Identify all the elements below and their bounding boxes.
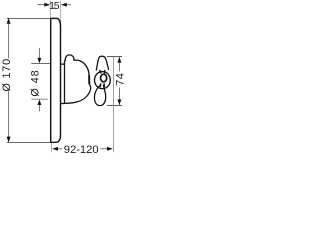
sleeve bottom edge — [61, 103, 65, 105]
extension line bottom of plate (dia 170) — [7, 142, 57, 144]
dimension line 92-120 left arrow — [57, 148, 62, 150]
dimension line 92-120 right arrow — [100, 148, 107, 150]
handle bottom lobe — [94, 85, 105, 106]
spoke base wedge bottom-left — [100, 83, 101, 87]
extension tick dia 48 top — [31, 63, 50, 65]
bell upper silhouette with button bump — [65, 55, 90, 76]
extension line top of plate (dia 170) — [7, 17, 51, 19]
extension tick dia 48 bottom — [31, 98, 48, 100]
spoke base wedge top-left — [100, 70, 102, 74]
extension line 74 top — [107, 56, 122, 58]
escutcheon plate side view — [51, 18, 61, 142]
spoke base wedge bottom-right — [103, 83, 106, 87]
svg-text:5: 5 — [54, 0, 60, 12]
sleeve top edge — [61, 63, 65, 65]
arrow down (74 bottom) — [117, 99, 121, 105]
dimension line 74 — [118, 57, 120, 105]
dimension stub dia 48 bottom — [38, 105, 40, 112]
dimension line 15 left arrow — [38, 4, 45, 6]
spoke base wedge top-right — [103, 70, 106, 74]
handle top lobe — [96, 56, 108, 70]
svg-text:92-120: 92-120 — [64, 144, 99, 156]
arrow up (dia 170 top) — [7, 18, 11, 24]
extension line 74 bottom — [107, 104, 122, 106]
dimension line 15 right arrow — [67, 4, 71, 6]
svg-text:Ø 170: Ø 170 — [1, 58, 13, 91]
extension line 15 left (plate back face) — [49, 1, 51, 18]
arrow up (74 top) — [117, 57, 121, 63]
svg-text:Ø 48: Ø 48 — [30, 69, 42, 96]
arrow down (dia 170 bottom) — [7, 137, 11, 143]
extension line 92-120 left (wall plane) — [51, 143, 53, 152]
extension line 15 right (plate front face) — [60, 1, 62, 26]
dimension stub dia 48 top — [38, 48, 40, 58]
bell base vertical — [64, 60, 66, 103]
back spoke tip lens — [88, 75, 90, 84]
bell lower silhouette — [65, 84, 91, 103]
extension line 92-120 right (valve plane) — [113, 57, 115, 152]
dimension line dia 170 — [8, 18, 10, 142]
handle hub inner ring — [101, 74, 107, 82]
svg-text:74: 74 — [115, 72, 127, 85]
handle hub — [95, 72, 111, 89]
